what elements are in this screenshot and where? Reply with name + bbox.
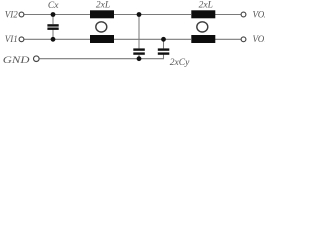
terminal VI2 xyxy=(19,12,24,17)
svg-text:GND: GND xyxy=(3,55,30,65)
wire Cx top lead xyxy=(52,15,54,25)
terminal GND xyxy=(34,56,40,62)
capacitor Cy1 xyxy=(133,48,145,54)
terminal VO1 xyxy=(241,37,246,42)
wire rail2 right: choke2 to VO1 terminal xyxy=(215,38,241,40)
wire Cy1 bottom lead xyxy=(138,55,140,59)
junction dot Cy1 bottom on GND rail xyxy=(137,56,142,61)
svg-text:VI2: VI2 xyxy=(5,9,18,19)
wire Cy1 top lead xyxy=(138,15,140,49)
svg-text:Cx: Cx xyxy=(48,1,59,11)
junction dot Cy2 top on rail2 xyxy=(161,37,166,42)
wire rail2 mid: choke1 to choke2 xyxy=(114,38,192,40)
choke L1 top winding xyxy=(90,10,114,18)
junction dot Cx bottom on rail2 xyxy=(51,37,56,42)
svg-text:VI1: VI1 xyxy=(5,34,18,44)
choke L1 core ring xyxy=(96,22,107,32)
wire rail1 right: choke2 to VO2 terminal xyxy=(215,14,241,16)
capacitor Cy2 xyxy=(158,48,170,54)
terminal VO2 xyxy=(241,12,246,17)
wire rail1 mid: choke1 to choke2 xyxy=(114,14,191,16)
choke L2 core ring xyxy=(197,22,208,32)
wire GND rail xyxy=(40,53,164,59)
svg-text:2xCy: 2xCy xyxy=(170,58,190,68)
choke L1 bottom winding xyxy=(90,35,114,43)
choke L2 top winding xyxy=(191,10,215,18)
svg-text:2xL: 2xL xyxy=(199,1,213,11)
wire Cx bottom lead xyxy=(52,30,54,40)
terminal VI1 xyxy=(19,37,24,42)
capacitor Cx xyxy=(47,24,58,30)
junction dot Cy1 top on rail1 xyxy=(137,12,142,17)
wire rail1 left: VI2 terminal to choke1 xyxy=(24,14,90,16)
choke L2 bottom winding xyxy=(191,35,215,43)
svg-text:2xL: 2xL xyxy=(96,1,110,11)
svg-text:VO2: VO2 xyxy=(253,9,266,19)
svg-text:VO1: VO1 xyxy=(253,34,266,44)
junction dot Cx top on rail1 xyxy=(51,12,56,17)
wire rail2 left: VI1 terminal to choke1 xyxy=(24,38,90,40)
wire Cy2 top lead xyxy=(163,39,165,48)
